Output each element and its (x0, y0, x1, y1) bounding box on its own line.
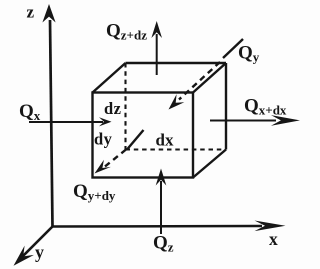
heat flux arrow Qz (156, 169, 167, 235)
heat flux arrow Qz+dz (151, 21, 162, 75)
heat flux arrow Qx (29, 117, 112, 126)
svg-text:dx: dx (156, 131, 174, 150)
svg-text:dz: dz (104, 99, 121, 118)
cube top-back edge (126, 62, 227, 64)
svg-text:y: y (35, 242, 44, 262)
svg-text:z: z (27, 3, 35, 22)
y-axis (14, 227, 53, 266)
heat flux arrow Qy+dy (solid inside tail, dashed hidden-edge part) (95, 130, 144, 174)
heat flux arrow Qy (solid outside, dashed inside) (169, 39, 244, 110)
heat flux arrow Qx+dx (210, 115, 300, 126)
x-axis (53, 221, 286, 232)
cube bottom-right slant edge (193, 150, 226, 178)
svg-text:dy: dy (94, 130, 113, 149)
cube back-right vertical edge (225, 63, 227, 150)
cube hidden back-bottom edge (dashed) (126, 148, 227, 150)
cube top-left slant edge (93, 63, 126, 93)
svg-text:x: x (269, 229, 278, 249)
cube front face (93, 93, 194, 178)
cube hidden back-left vertical edge (dashed) (124, 63, 126, 150)
cube top-right slant edge (193, 63, 226, 93)
z-axis (42, 4, 55, 227)
